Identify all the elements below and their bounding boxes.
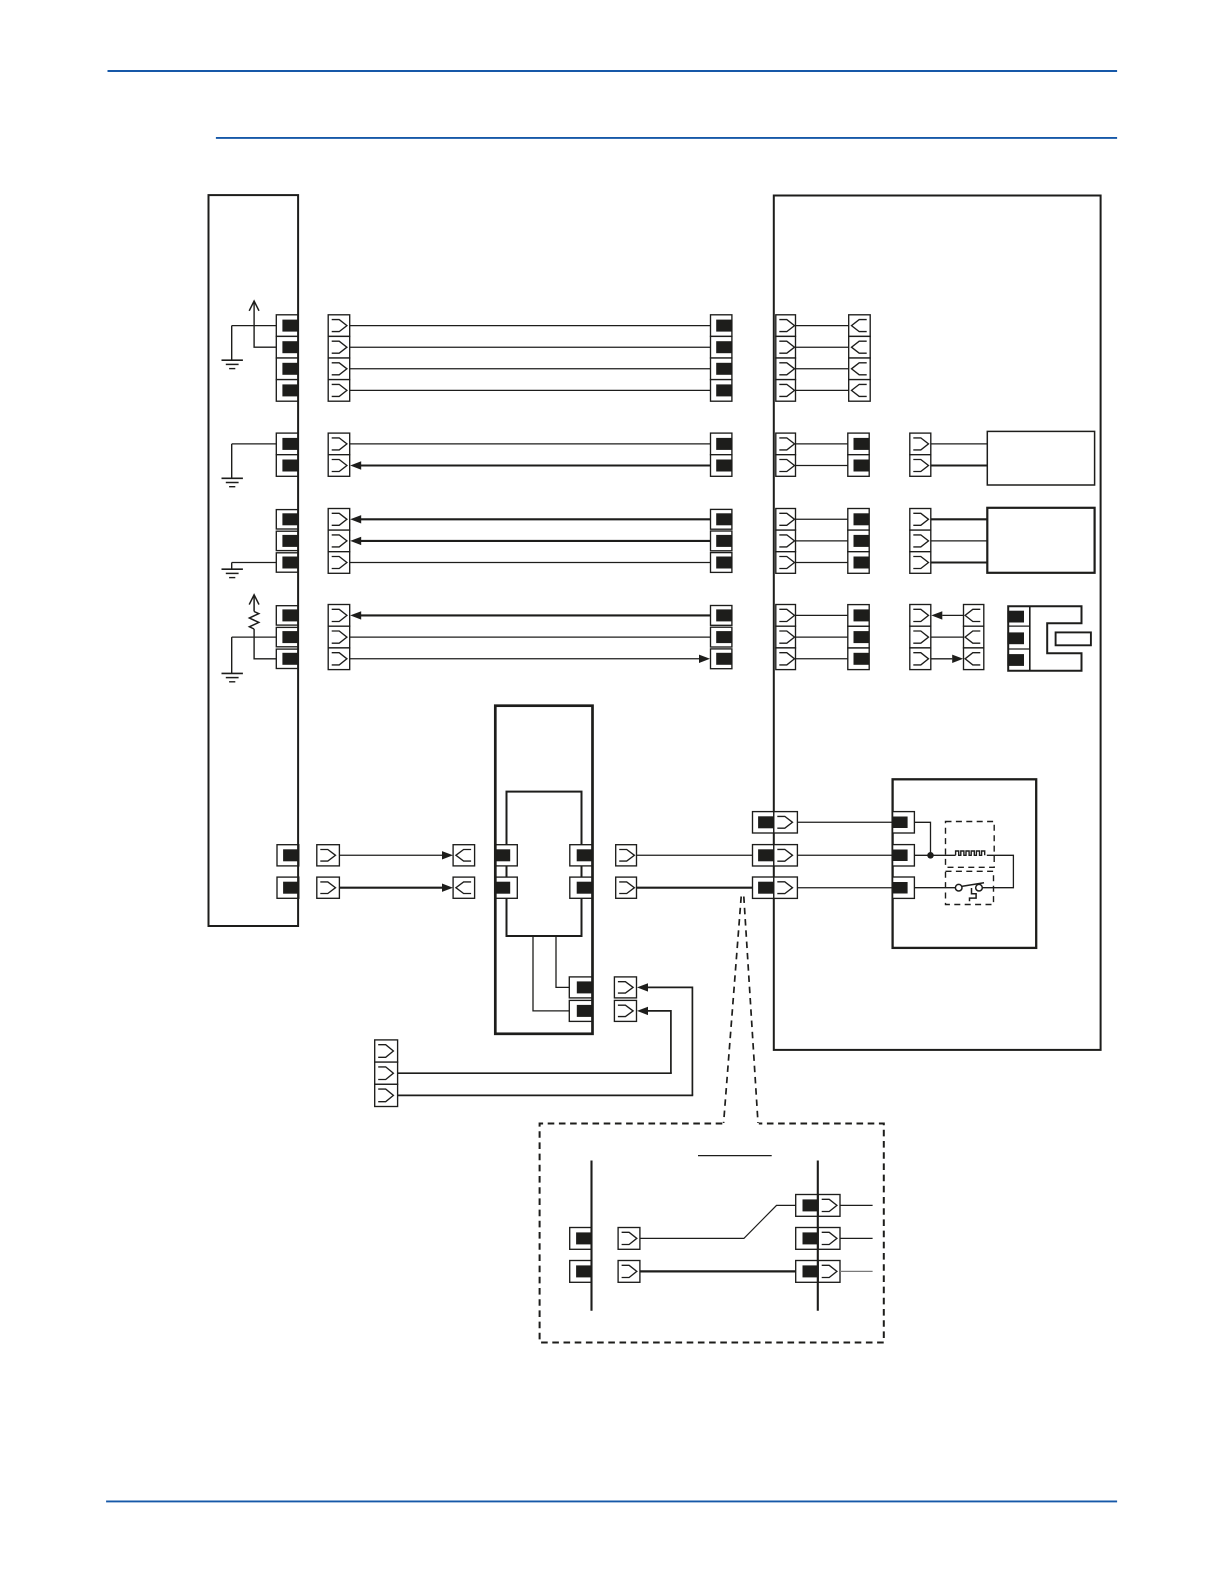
plug P10 (group B) xyxy=(848,433,869,476)
plug/jack P16-J19 (right box edge, 3 rows) xyxy=(753,812,798,899)
wire D1 with left arrow xyxy=(350,611,710,619)
jack J6 (group A, 4 cells, mirrored) xyxy=(849,315,871,401)
ground (group B) xyxy=(222,444,243,487)
right assembly box xyxy=(774,196,1101,1050)
wire D3 arrow right xyxy=(931,655,963,663)
plug P6 (group A, 4 pins) xyxy=(711,315,732,401)
plug P8 (group C, 3 pins) xyxy=(711,509,732,572)
wire J15-3 xyxy=(398,1094,694,1096)
wire to component (B1) xyxy=(931,443,988,445)
dashed thermostat box xyxy=(946,871,994,904)
title rule xyxy=(216,137,1117,139)
wires group C to plug xyxy=(796,519,848,562)
plug P5 pins 1-2 (left board, bottom) xyxy=(277,845,299,899)
wire detail row2 xyxy=(640,1270,796,1272)
plug P2 pins 1-2 (left board, group B) xyxy=(276,433,298,476)
wires group D to plug xyxy=(796,615,848,658)
plug P13 (inner unit left) xyxy=(495,845,518,899)
plug P14 (inner unit right) xyxy=(570,845,593,899)
plug P3 pins 1-3 (left board, group C) xyxy=(276,510,298,573)
wire C1 with left arrow xyxy=(350,515,710,523)
junction dot xyxy=(927,852,934,859)
wire to component (C2) xyxy=(931,540,988,542)
heater element xyxy=(956,851,985,855)
right bus line xyxy=(817,1161,819,1311)
jack J1 (group A, 4 cells) xyxy=(328,315,350,401)
wires to interlock box (3) xyxy=(797,822,892,887)
jack J17 (left board bottom) xyxy=(317,845,340,899)
wire to J18-1 (arrow right) xyxy=(339,851,453,859)
wire stub to bottom pin 1 xyxy=(556,936,569,987)
jack J9 (group C) xyxy=(776,509,796,574)
wire C2 with left arrow xyxy=(350,537,710,545)
wire pin A1 to ground xyxy=(232,325,277,327)
jack J15 (bottom left, 3 cells) xyxy=(375,1040,398,1107)
wire row2 to switch xyxy=(914,887,955,889)
jack J5 (group A, 4 cells) xyxy=(776,315,796,401)
wire into J14-1 (arrow left) xyxy=(637,983,692,1095)
ground (group A) xyxy=(222,326,243,369)
motor assembly (group D) xyxy=(1007,606,1091,670)
plug P1 pins 1-4 (left board, group A) xyxy=(276,315,298,401)
wire pin B1 to ground xyxy=(232,443,277,445)
wire B1 xyxy=(350,443,711,445)
detail dashed box xyxy=(540,1124,884,1343)
jack J12 (group D) xyxy=(910,605,931,670)
jack J14 (sub-box bottom, 2 cells) xyxy=(614,977,636,1022)
wire B2 to plug xyxy=(796,465,848,467)
pull-up resistor R1 with +V arrow xyxy=(249,595,276,659)
wire J15-2 xyxy=(398,1072,672,1074)
wire row1 to heater xyxy=(914,854,955,856)
wire fuser row2 xyxy=(637,887,754,889)
plug P15 (sub-box bottom right) xyxy=(569,977,592,1022)
jack J10 (group C) xyxy=(910,509,931,574)
jack J7 (group B) xyxy=(776,433,796,476)
wire fuser row1 xyxy=(637,854,754,856)
wire B2 with left arrow xyxy=(350,461,710,469)
wire to J18-2 (arrow right) xyxy=(339,884,453,892)
plug P7 (group B, 2 pins) xyxy=(711,433,732,476)
plug P9 (group D, 3 pins) xyxy=(711,606,732,669)
wire to component (C3) xyxy=(931,562,988,564)
jack J18 (mirrored pair) xyxy=(453,845,475,899)
wire D3 with right arrow xyxy=(350,655,710,663)
jack J11 (group D) xyxy=(776,605,796,670)
wire heater loop xyxy=(982,855,1013,887)
crossover wire xyxy=(640,1205,796,1238)
plug P12 (group D) xyxy=(848,605,869,670)
plug P18 (detail left, 2 pins) xyxy=(570,1228,592,1283)
footer rule xyxy=(106,1500,1117,1502)
left bus line xyxy=(590,1161,592,1311)
plug P11 (group C) xyxy=(848,509,869,574)
harness wires group A (4) xyxy=(350,326,711,391)
jack J2 (group B, 2 cells) xyxy=(328,433,350,476)
wire row0 jog xyxy=(914,822,930,855)
wire to component (C1) xyxy=(931,518,988,520)
ground (group C) xyxy=(222,563,243,578)
header rule xyxy=(108,70,1118,72)
jack J8 (group B) xyxy=(910,433,931,476)
interlock box xyxy=(893,779,1037,948)
wire pin C3 to ground xyxy=(232,562,277,564)
leader line right xyxy=(744,897,758,1123)
wire D1 arrow left xyxy=(931,611,963,619)
jack J13 (group D, mirrored) xyxy=(964,605,984,670)
thermostat switch xyxy=(955,883,984,902)
jack J4 (group D, 3 cells) xyxy=(328,605,350,670)
sub-box (fuser unit) xyxy=(495,706,592,1034)
plug P17 (interlock box edge, 3 pins) xyxy=(893,812,915,899)
leader line left xyxy=(724,897,742,1123)
component box (group C) xyxy=(987,508,1094,573)
dashed heater box xyxy=(946,822,995,868)
wire B1 to plug xyxy=(796,443,848,445)
wire D2 xyxy=(350,636,711,638)
left PWB box xyxy=(209,195,299,926)
label underline xyxy=(698,1155,772,1157)
wire stub to bottom pin 2 xyxy=(533,936,569,1011)
wire stub det row0 xyxy=(840,1204,873,1206)
jack J16 (right of sub-box) xyxy=(616,845,637,899)
wire stub det row2 xyxy=(840,1270,873,1272)
jack J3 (group C, 3 cells) xyxy=(328,509,350,574)
wire into J14-2 (arrow left) xyxy=(637,1007,671,1073)
plug P4 pins 1-3 (left board, group D) xyxy=(276,606,298,669)
ground (group D) xyxy=(222,637,243,682)
jack J20 (detail left) xyxy=(618,1228,640,1283)
wire C3 xyxy=(350,562,711,564)
wire to component (B2) xyxy=(931,464,988,466)
wire D2 xyxy=(931,636,964,638)
+V arrow to pin A2 xyxy=(249,301,276,347)
wire stub det row1 xyxy=(840,1237,873,1239)
plug/jack P19-J21 (detail right, 3 rows) xyxy=(796,1195,840,1283)
wire pin D2 to ground xyxy=(232,636,277,638)
component box (group B) xyxy=(987,431,1094,485)
wires group A inside box xyxy=(796,326,849,391)
inner unit box xyxy=(507,792,582,936)
